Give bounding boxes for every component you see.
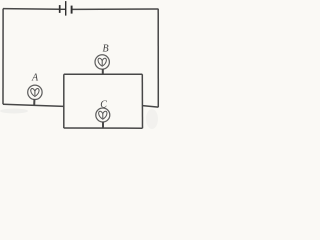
lamp C <box>96 108 110 128</box>
wire connector right to parallel block <box>142 106 158 108</box>
wire between battery plates <box>60 8 66 10</box>
svg-text:C: C <box>100 100 107 111</box>
wire right side vertical <box>157 9 159 108</box>
lamp A <box>28 85 42 105</box>
svg-text:A: A <box>31 72 39 83</box>
lamp B <box>95 55 109 75</box>
wire left side vertical <box>2 9 4 105</box>
wire parallel block top rail <box>64 73 143 75</box>
battery long plate <box>65 1 67 16</box>
svg-text:B: B <box>102 44 108 55</box>
node: parallel block right rail <box>141 74 143 128</box>
wire bottom-left horizontal <box>3 104 64 106</box>
wire top-left segment <box>3 8 60 11</box>
node: parallel block left rail <box>63 74 65 128</box>
wire top-right segment <box>73 8 159 10</box>
wire parallel block bottom rail <box>64 127 143 129</box>
battery cell: short plate right <box>71 6 73 14</box>
battery cell: short plate left <box>59 5 61 13</box>
